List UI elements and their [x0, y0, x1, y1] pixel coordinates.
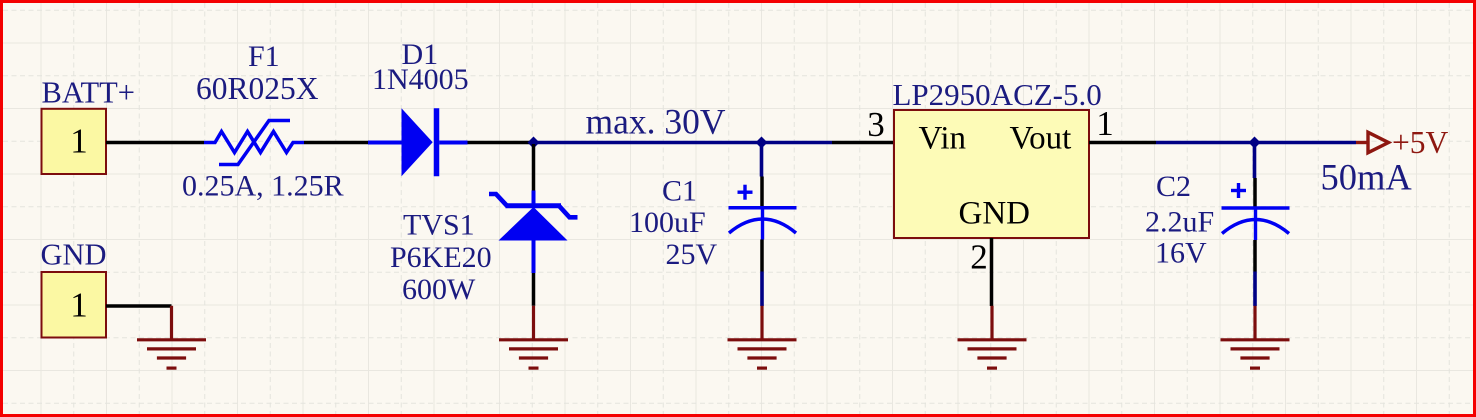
svg-text:2: 2 [970, 238, 988, 277]
svg-text:1: 1 [70, 122, 88, 161]
wire node A to U1 pin 3 [534, 141, 833, 145]
svg-text:16V: 16V [1155, 237, 1207, 270]
junction node A [528, 137, 540, 149]
svg-text:max. 30V: max. 30V [586, 102, 726, 142]
pin 2 of U1 [970, 238, 991, 307]
svg-text:1N4005: 1N4005 [372, 63, 469, 96]
ground (C2) [1221, 306, 1290, 368]
svg-text:1: 1 [70, 286, 88, 325]
svg-text:50mA: 50mA [1321, 157, 1413, 198]
svg-text:P6KE20: P6KE20 [390, 241, 492, 274]
ground (C1) [728, 306, 797, 368]
svg-text:LP2950ACZ-5.0: LP2950ACZ-5.0 [893, 77, 1102, 112]
wire F1 to D1 [304, 141, 368, 145]
capacitor C2 [1222, 183, 1290, 240]
svg-text:BATT+: BATT+ [42, 76, 135, 110]
svg-text:0.25A, 1.25R: 0.25A, 1.25R [182, 170, 344, 203]
svg-text:2.2uF: 2.2uF [1145, 206, 1214, 239]
svg-text:3: 3 [867, 105, 885, 144]
pin 3 of U1 [832, 105, 894, 144]
svg-text:Vout: Vout [1010, 121, 1072, 157]
ground (U1) [958, 306, 1027, 368]
pin C1 bottom [760, 240, 764, 272]
svg-text:1: 1 [1096, 104, 1114, 143]
power port +5V [1356, 125, 1449, 160]
fuse F1 [204, 121, 304, 165]
svg-text:60R025X: 60R025X [196, 71, 319, 106]
svg-text:+5V: +5V [1392, 125, 1449, 160]
svg-text:C1: C1 [662, 175, 697, 208]
ground (TVS1) [499, 306, 568, 368]
svg-text:600W: 600W [402, 273, 476, 306]
wire C1 to ground [760, 272, 764, 307]
pin 1 of U1 [1089, 104, 1156, 143]
svg-text:100uF: 100uF [629, 206, 706, 239]
wire D1 to node A [468, 141, 534, 145]
pin C1 top [760, 177, 764, 207]
svg-text:GND: GND [959, 196, 1031, 232]
junction node C [1249, 137, 1261, 149]
svg-text:25V: 25V [666, 238, 718, 271]
diode D1 [368, 108, 468, 176]
wire U1 pin 1 to +5V [1156, 141, 1356, 145]
ground (GND port) [137, 306, 206, 368]
regulator U1 LP2950ACZ-5.0 [893, 77, 1102, 238]
svg-text:Vin: Vin [919, 121, 967, 157]
pin C2 bottom [1253, 240, 1257, 272]
port GND [42, 272, 107, 338]
svg-text:GND: GND [41, 238, 107, 272]
svg-text:C2: C2 [1156, 170, 1191, 203]
svg-text:F1: F1 [248, 40, 280, 73]
svg-text:TVS1: TVS1 [403, 209, 475, 242]
wire node C down to C2 [1253, 144, 1257, 178]
TVS diode TVS1 [489, 191, 578, 274]
wire node A down to TVS1 [532, 144, 536, 191]
wire BATT+ to F1 [106, 141, 204, 145]
pin C2 top [1253, 178, 1257, 207]
port BATT+ [42, 109, 107, 174]
wire node B down to C1 [760, 144, 764, 177]
pin TVS1 to ground [532, 273, 536, 306]
wire GND port to ground [106, 304, 172, 308]
wire C2 to ground [1253, 272, 1257, 307]
capacitor C1 [729, 185, 797, 240]
junction node B [756, 137, 768, 149]
